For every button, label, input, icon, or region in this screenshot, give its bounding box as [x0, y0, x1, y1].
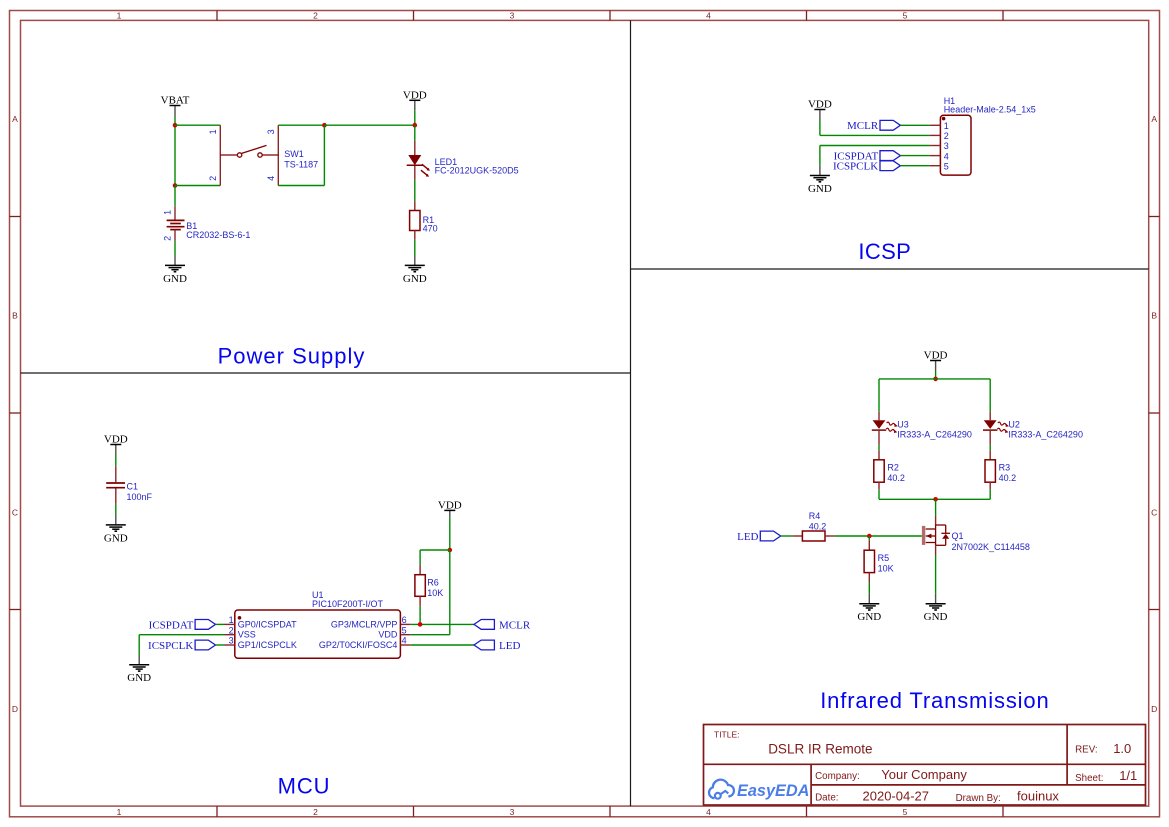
svg-text:4: 4	[402, 636, 407, 646]
svg-text:D: D	[1151, 704, 1157, 714]
wire VDD to IR rail	[935, 371, 937, 379]
svg-text:VDD: VDD	[924, 350, 948, 362]
net flag VDD MCU	[438, 500, 462, 518]
H1 pin 2	[930, 131, 949, 141]
junction node R6/MCLR	[418, 622, 423, 627]
net flag ICSPDAT MCU	[149, 619, 216, 631]
svg-text:3: 3	[266, 129, 276, 134]
svg-text:GP3/MCLR/VPP: GP3/MCLR/VPP	[331, 619, 398, 629]
svg-text:ICSPCLK: ICSPCLK	[148, 640, 193, 652]
wire VDD to H1 pin 2	[820, 120, 930, 135]
Q1 drain pin	[935, 516, 937, 525]
svg-text:C1: C1	[127, 482, 139, 492]
svg-text:3: 3	[510, 807, 515, 817]
wire B1 to SW1 pin 2	[175, 185, 220, 187]
ground C1	[104, 515, 128, 544]
svg-text:4: 4	[944, 151, 949, 161]
svg-text:Sheet:: Sheet:	[1075, 773, 1103, 784]
LED U3 IR333-A	[872, 420, 898, 433]
R2 top pin	[878, 450, 880, 459]
net flag ICSPDAT ICSP	[834, 151, 901, 163]
wire R4 to Q1 gate	[835, 535, 922, 537]
svg-text:2N7002K_C114458: 2N7002K_C114458	[952, 542, 1030, 552]
H1 pin 5	[930, 161, 949, 171]
wire Q1 source to GND	[935, 555, 937, 594]
section divider ICSP / infrared	[631, 268, 1149, 270]
wire ICSPDAT to H1 pin 4	[900, 155, 929, 157]
wire VDD to LED1 anode	[414, 125, 416, 141]
svg-text:LED: LED	[737, 531, 758, 543]
wire switch to VDD node	[324, 124, 414, 126]
svg-text:VSS: VSS	[238, 630, 256, 640]
svg-text:U2: U2	[1008, 419, 1020, 429]
wire U3 to R2	[878, 445, 880, 451]
net flag MCLR ICSP	[847, 120, 900, 132]
resistor R1	[410, 211, 420, 231]
switch SW1	[220, 125, 278, 185]
svg-text:2: 2	[313, 11, 318, 21]
svg-text:100nF: 100nF	[127, 492, 153, 502]
svg-text:Your Company: Your Company	[881, 767, 967, 782]
wire LED flag to R4	[781, 535, 793, 537]
wire VDD vertical to pin 5	[449, 550, 451, 635]
svg-text:40.2: 40.2	[999, 473, 1017, 483]
capacitor C1	[106, 483, 125, 488]
svg-text:IR333-A_C264290: IR333-A_C264290	[1008, 430, 1083, 440]
resistor R5	[864, 550, 874, 572]
svg-text:2: 2	[313, 807, 318, 817]
junction node VDD/LED1	[413, 123, 418, 128]
svg-text:Drawn By:: Drawn By:	[956, 793, 1001, 804]
svg-text:VDD: VDD	[104, 434, 128, 446]
ground U1 VSS	[127, 655, 151, 684]
svg-text:Infrared Transmission: Infrared Transmission	[820, 688, 1049, 713]
transistor Q1 2N7002K	[924, 525, 950, 545]
svg-text:1.0: 1.0	[1113, 741, 1131, 756]
junction node bottom rail / Q1 drain	[933, 497, 938, 502]
EasyEDA logo	[709, 780, 809, 801]
connector H1 Header-Male-2.54_1x5	[940, 115, 971, 175]
wire U1 pin 5 to VDD	[411, 634, 450, 636]
svg-text:GND: GND	[403, 273, 427, 285]
svg-text:MCLR: MCLR	[499, 619, 531, 631]
net flag ICSPCLK ICSP	[833, 161, 900, 173]
wire U2 to R3	[989, 445, 991, 451]
C1 pin 1	[115, 466, 117, 482]
resistor R2	[874, 460, 884, 482]
junction node VDD/R6	[448, 548, 453, 553]
svg-text:1: 1	[117, 807, 122, 817]
svg-text:5: 5	[903, 11, 908, 21]
section divider vertical	[630, 20, 632, 806]
svg-text:6: 6	[402, 615, 407, 625]
R6 top pin	[419, 565, 421, 575]
wire VSS to GND	[139, 635, 224, 655]
svg-text:40.2: 40.2	[809, 521, 827, 531]
svg-text:4: 4	[706, 11, 711, 21]
U1 pin 5	[378, 625, 410, 639]
resistor R3	[985, 460, 995, 482]
svg-text:GND: GND	[163, 273, 187, 285]
junction node SW1 pins 3-4 tie	[322, 123, 327, 128]
svg-text:EasyEDA: EasyEDA	[737, 782, 809, 800]
LED1 cathode pin	[414, 166, 416, 180]
R3 top pin	[989, 450, 991, 459]
svg-text:MCLR: MCLR	[847, 120, 879, 132]
svg-text:SW1: SW1	[284, 149, 304, 159]
LED U2 cathode pin	[989, 431, 991, 445]
wire junction to R5	[868, 536, 870, 540]
wire ICSPCLK to H1 pin 5	[900, 165, 929, 167]
svg-text:R5: R5	[878, 553, 890, 563]
svg-text:Date:: Date:	[815, 793, 838, 804]
R3 bottom pin	[989, 482, 991, 490]
wire ICSPCLK to U1 pin 3	[216, 644, 225, 646]
wire U1 pin 4 to LED flag	[411, 644, 474, 646]
svg-text:MCU: MCU	[278, 773, 331, 798]
R1 top pin	[414, 201, 416, 210]
junction node VBAT/SW1 pin1	[173, 123, 178, 128]
svg-text:5: 5	[903, 807, 908, 817]
wire B1 to GND	[174, 241, 176, 256]
svg-text:IR333-A_C264290: IR333-A_C264290	[897, 430, 972, 440]
svg-text:GND: GND	[104, 532, 128, 544]
U1 pin 1	[225, 615, 298, 629]
U1 pin 3	[225, 636, 297, 650]
svg-text:VDD: VDD	[378, 630, 398, 640]
H1 pin 1	[930, 121, 949, 131]
svg-text:A: A	[1151, 114, 1157, 124]
op-amp U1 PIC10F200T-I/OT body	[235, 610, 401, 658]
svg-text:PIC10F200T-I/OT: PIC10F200T-I/OT	[312, 599, 384, 609]
Q1 source pin	[935, 545, 937, 555]
ground power R1	[403, 256, 427, 285]
svg-text:R4: R4	[809, 511, 821, 521]
B1 pin 2	[174, 230, 176, 241]
wire R6 to MCLR net	[419, 606, 421, 624]
svg-text:GND: GND	[857, 611, 881, 623]
U1 pin 4	[319, 636, 411, 650]
svg-text:1: 1	[229, 615, 234, 625]
svg-text:2: 2	[163, 236, 173, 241]
svg-text:CR2032-BS-6-1: CR2032-BS-6-1	[186, 230, 250, 240]
wire VDD down to junction	[449, 517, 451, 550]
wire VBAT to SW1 pin 1	[175, 124, 220, 126]
wire rail to Q1 drain	[935, 499, 937, 516]
svg-text:C: C	[12, 507, 18, 517]
svg-text:Q1: Q1	[952, 531, 964, 541]
wire B1 pin1	[174, 186, 176, 207]
wire IR bottom rail	[879, 498, 990, 500]
R4 right pin	[825, 535, 835, 537]
LED LED1	[407, 155, 430, 177]
R4 left pin	[793, 535, 803, 537]
svg-text:ICSPCLK: ICSPCLK	[833, 161, 878, 173]
wire R2 to bottom rail	[878, 490, 880, 500]
R6 bottom pin	[419, 596, 421, 606]
resistor R6	[415, 575, 425, 597]
svg-text:GND: GND	[127, 672, 151, 684]
svg-text:FC-2012UGK-520D5: FC-2012UGK-520D5	[435, 166, 519, 176]
net flag VDD ICSP	[808, 99, 832, 120]
svg-text:ICSP: ICSP	[858, 239, 911, 264]
svg-text:10K: 10K	[878, 564, 894, 574]
svg-text:Header-Male-2.54_1x5: Header-Male-2.54_1x5	[944, 105, 1036, 115]
ground Q1 source	[924, 594, 948, 623]
wire LED1 to R1	[414, 180, 416, 201]
svg-text:2: 2	[229, 625, 234, 635]
svg-text:10K: 10K	[427, 588, 443, 598]
svg-text:GP0/ICSPDAT: GP0/ICSPDAT	[238, 619, 297, 629]
junction node VBAT/B1	[173, 183, 178, 188]
svg-text:5: 5	[402, 625, 407, 635]
R2 bottom pin	[878, 482, 880, 490]
svg-text:D: D	[12, 704, 18, 714]
svg-text:4: 4	[706, 807, 711, 817]
svg-text:VDD: VDD	[438, 500, 462, 512]
wire R3 to bottom rail	[989, 490, 991, 500]
C1 pin 2	[115, 489, 117, 504]
svg-text:REV:: REV:	[1075, 745, 1098, 756]
LED U2 IR333-A	[983, 420, 1009, 433]
net flag VDD C1	[104, 434, 128, 455]
net flag VDD IR	[924, 350, 948, 371]
svg-text:GP1/ICSPCLK: GP1/ICSPCLK	[238, 640, 297, 650]
battery B1	[167, 220, 185, 229]
svg-text:Company:: Company:	[815, 771, 860, 782]
junction node R4/R5	[867, 534, 872, 539]
ground R5	[857, 594, 881, 623]
svg-text:1: 1	[944, 121, 949, 131]
title block frame	[704, 725, 1146, 806]
svg-text:C: C	[1151, 507, 1157, 517]
svg-text:GND: GND	[808, 183, 832, 195]
svg-text:TITLE:: TITLE:	[714, 730, 740, 740]
svg-text:2020-04-27: 2020-04-27	[863, 789, 930, 804]
LED U2 anode pin	[989, 412, 991, 420]
svg-text:DSLR IR Remote: DSLR IR Remote	[768, 742, 872, 757]
wire VBAT vertical	[174, 116, 176, 186]
U1 pin 6	[331, 615, 411, 629]
section divider power supply / MCU	[21, 372, 631, 374]
net flag MCLR MCU	[474, 619, 531, 631]
wire R5 to GND	[868, 583, 870, 594]
svg-text:VBAT: VBAT	[161, 95, 190, 107]
svg-text:VDD: VDD	[403, 90, 427, 102]
H1 pin 3	[930, 141, 949, 151]
svg-text:5: 5	[944, 161, 949, 171]
net flag VBAT	[161, 95, 190, 116]
svg-text:GND: GND	[924, 611, 948, 623]
R5 top pin	[868, 540, 870, 550]
svg-text:1: 1	[163, 210, 173, 215]
svg-text:B: B	[12, 311, 18, 321]
svg-text:fouinux: fouinux	[1017, 789, 1059, 804]
svg-text:R2: R2	[887, 462, 899, 472]
R5 bottom pin	[868, 573, 870, 583]
svg-text:3: 3	[510, 11, 515, 21]
LED U3 cathode pin	[878, 431, 880, 445]
svg-text:ICSPDAT: ICSPDAT	[149, 619, 194, 631]
wire R1 to GND	[414, 240, 416, 256]
LED1 anode pin	[414, 141, 416, 155]
svg-text:470: 470	[423, 223, 438, 233]
svg-text:Power Supply: Power Supply	[218, 344, 366, 369]
LED U3 anode pin	[878, 412, 880, 420]
svg-text:2: 2	[208, 176, 218, 181]
wire GND to H1 pin 3	[820, 146, 930, 166]
svg-text:4: 4	[266, 176, 276, 181]
wire ICSPDAT to U1 pin 1	[216, 623, 225, 625]
net flag LED MCU	[474, 640, 520, 652]
net flag VDD power	[403, 90, 427, 111]
resistor R4	[802, 531, 825, 541]
wire U1 pin 6 to MCLR flag	[411, 623, 474, 625]
wire C1 to GND	[115, 504, 117, 515]
svg-text:VDD: VDD	[808, 99, 832, 111]
svg-text:2: 2	[944, 131, 949, 141]
ground power B1	[163, 256, 187, 285]
svg-text:LED: LED	[499, 640, 520, 652]
wire VDD flag down	[414, 110, 416, 125]
svg-text:TS-1187: TS-1187	[284, 159, 318, 169]
svg-text:1: 1	[208, 129, 218, 134]
junction node VDD IR rail	[933, 377, 938, 382]
B1 pin 1	[174, 206, 176, 220]
svg-text:40.2: 40.2	[887, 473, 905, 483]
svg-text:B: B	[1151, 311, 1157, 321]
ground ICSP	[808, 166, 832, 195]
wire MCLR to H1 pin 1	[900, 124, 929, 126]
wire junction to R6	[420, 550, 450, 565]
svg-text:R3: R3	[999, 462, 1011, 472]
wire SW1 pin3-pin4 loop	[278, 125, 324, 185]
R1 bottom pin	[414, 231, 416, 240]
net flag LED IR	[737, 531, 781, 543]
svg-text:3: 3	[944, 141, 949, 151]
svg-text:GP2/T0CKI/FOSC4: GP2/T0CKI/FOSC4	[319, 640, 398, 650]
svg-text:1: 1	[117, 11, 122, 21]
svg-text:U3: U3	[897, 419, 909, 429]
U1 pin 2	[225, 625, 256, 639]
H1 pin 4	[930, 151, 949, 161]
wire SW1 pin 3 to junction	[278, 124, 324, 126]
svg-text:1/1: 1/1	[1119, 768, 1137, 783]
wire IR top rail	[879, 379, 990, 412]
net flag ICSPCLK MCU	[148, 640, 215, 652]
svg-text:3: 3	[229, 636, 234, 646]
svg-text:R6: R6	[427, 577, 439, 587]
wire VDD to C1	[115, 455, 117, 466]
svg-text:A: A	[12, 114, 18, 124]
